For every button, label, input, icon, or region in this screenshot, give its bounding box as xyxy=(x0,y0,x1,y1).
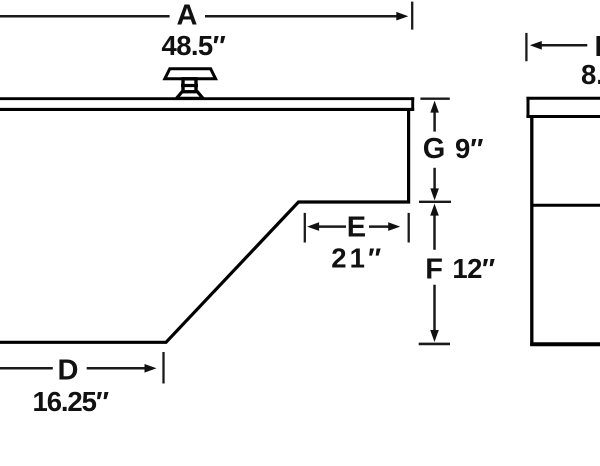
svg-text:A: A xyxy=(177,0,198,32)
svg-text:21″: 21″ xyxy=(331,242,384,273)
svg-text:48.5″: 48.5″ xyxy=(162,30,226,61)
svg-text:16.25″: 16.25″ xyxy=(33,386,109,417)
svg-text:8.5″: 8.5″ xyxy=(581,59,600,90)
svg-text:E: E xyxy=(347,211,366,243)
svg-text:G: G xyxy=(423,133,446,165)
svg-text:9″: 9″ xyxy=(455,133,483,164)
svg-text:F: F xyxy=(425,253,443,285)
svg-text:12″: 12″ xyxy=(452,253,495,284)
svg-text:D: D xyxy=(58,355,79,387)
